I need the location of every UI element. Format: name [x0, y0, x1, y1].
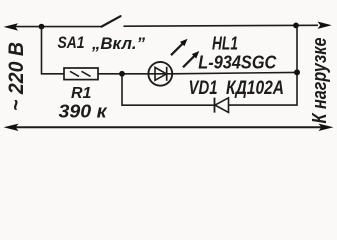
- svg-text:К нагрузке: К нагрузке: [309, 38, 331, 124]
- arrow bottom-right: [319, 124, 334, 131]
- arrow bottom-left: [4, 124, 19, 131]
- LED emission arrow 2: [183, 55, 195, 67]
- diode VD1 cathode bar: [214, 98, 216, 113]
- wire top-right horizontal (switch to node B): [124, 24, 319, 27]
- svg-text:R1: R1: [71, 85, 92, 102]
- resistor R1 body: [64, 68, 98, 80]
- wire bottom (neutral): [14, 126, 323, 128]
- svg-text:VD1: VD1: [189, 78, 218, 99]
- node C junction dot (R1 / VD1 branch): [119, 71, 125, 77]
- LED cathode bar: [166, 67, 168, 81]
- node B junction dot (top right): [293, 23, 299, 29]
- svg-text:SA1: SA1: [58, 33, 85, 52]
- svg-text:390 к: 390 к: [59, 102, 108, 122]
- LED HL1 circle: [148, 62, 172, 86]
- arrow left input: [4, 23, 19, 30]
- switch SA1 blade: [102, 16, 121, 26]
- svg-text:„Вкл.”: „Вкл.”: [91, 34, 145, 53]
- wire diode to right riser: [229, 25, 298, 105]
- diode VD1 triangle: [215, 98, 229, 113]
- wire left vertical branch: [42, 27, 65, 74]
- svg-text:КД102А: КД102А: [226, 78, 284, 99]
- LED emission arrow 1: [171, 43, 183, 55]
- wire top-left horizontal (phase in): [14, 26, 102, 28]
- wire LED to node D: [172, 72, 297, 73]
- LED triangle: [155, 67, 167, 80]
- svg-text:~ 220 В: ~ 220 В: [5, 42, 28, 111]
- resistor R1 power-rating marks: [70, 71, 79, 76]
- wire VD1 branch: down from node C and across: [122, 74, 215, 105]
- node A junction dot (top of R1 branch): [39, 24, 45, 30]
- wire resistor to LED: [98, 73, 149, 75]
- svg-text:HL1: HL1: [212, 34, 238, 54]
- svg-text:L-934SGC: L-934SGC: [198, 53, 277, 73]
- node D junction dot (right riser / LED): [294, 69, 300, 75]
- LED anode wire through circle: [149, 73, 172, 75]
- arrow top-right output: [318, 22, 332, 29]
